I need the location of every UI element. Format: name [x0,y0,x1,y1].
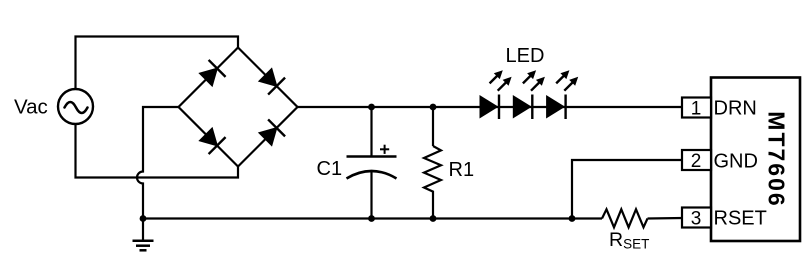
resistor R1 [424,107,441,219]
capacitor C1 [347,107,397,219]
svg-text:RSET: RSET [714,207,767,229]
wire ground rail [143,217,602,219]
svg-text:GND: GND [714,150,758,172]
wire top rail Vac to bridge [76,37,239,90]
LED D1 emission arrows [490,70,512,91]
junction R1 top [430,104,437,111]
diode bridge bottom-left [198,127,225,154]
svg-text:DRN: DRN [714,97,757,119]
junction C1 bottom [368,215,375,222]
diode bridge top-right [258,67,285,94]
LED D2 [513,95,533,120]
svg-text:C1: C1 [317,158,343,180]
svg-text:1: 1 [691,98,702,119]
svg-text:3: 3 [691,208,702,229]
wire Vac bottom to bridge bottom [76,124,239,178]
LED D3 emission arrows [556,70,578,91]
wire GND tap to pin 2 [572,160,683,219]
diode bridge bottom-right [258,119,285,146]
wire positive rail bridge to pin 1 [298,106,684,108]
pin 3 box [682,208,711,228]
junction GND tap [569,215,576,222]
IC U1 MT7606 body [711,78,800,242]
pin 1 box [682,98,711,118]
wire bridge left corner to ground with hop [137,107,179,241]
ground [133,241,154,251]
LED D1 [480,95,500,120]
wire RSET to pin 3 [648,217,684,220]
svg-text:LED: LED [506,45,545,67]
wire bridge diamond edges [179,48,298,167]
junction ground node [140,215,147,222]
pin 2 box [682,150,711,170]
AC source Vac [58,89,93,124]
svg-text:MT7606: MT7606 [763,111,789,207]
diode bridge top-left [198,60,225,87]
plus sign C1 polarity [380,145,389,154]
resistor RSET [602,209,648,227]
svg-text:2: 2 [691,151,702,172]
svg-text:R1: R1 [449,159,475,181]
junction C1 top [368,104,375,111]
LED D3 [546,95,566,120]
LED D2 emission arrows [523,70,545,91]
junction R1 bottom [430,215,437,222]
svg-text:Vac: Vac [14,96,48,119]
